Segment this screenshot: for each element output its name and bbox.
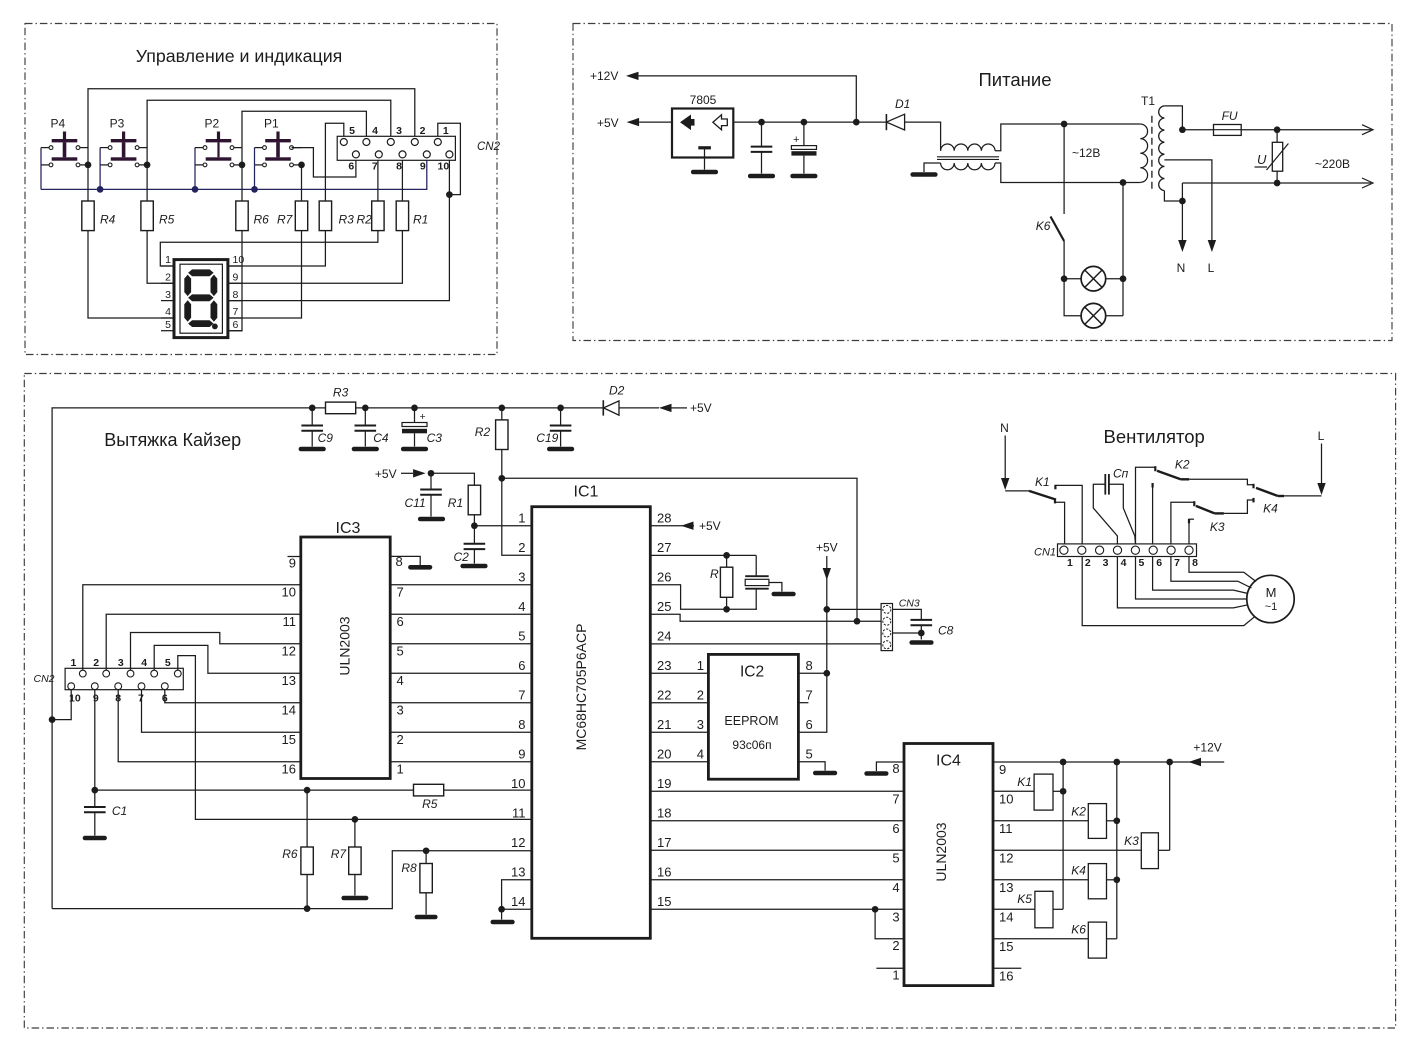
svg-text:~12В: ~12В [1072, 146, 1100, 160]
wire CN1 pin6 to motor [1153, 557, 1248, 594]
varistor U [1255, 130, 1289, 183]
wire K2/K4/K6 column [1116, 762, 1118, 939]
svg-text:R5: R5 [159, 213, 175, 227]
svg-text:+5V: +5V [690, 401, 712, 415]
wire CN1 pin7 to K3 [1171, 502, 1194, 544]
svg-text:ULN2003: ULN2003 [337, 616, 353, 675]
junction P3 right contacts [144, 162, 151, 169]
wire CN2 pin7 to R2 [377, 158, 379, 201]
wire +5V down to IC2 pin8 [826, 609, 828, 673]
switch K6 [1036, 124, 1064, 241]
wire P3 to CN2 pin 3 and R5 [147, 100, 391, 201]
display pin stubs left [161, 265, 174, 267]
svg-text:4: 4 [141, 657, 147, 669]
resistor R7 (control) [295, 201, 307, 231]
junction C input [758, 119, 765, 126]
switch K2 fan [1155, 458, 1190, 480]
svg-text:2: 2 [518, 540, 525, 555]
svg-text:15: 15 [999, 939, 1013, 954]
junction on bus at P2 [192, 186, 199, 193]
wire +5V to CN3 pin1 [827, 608, 881, 610]
svg-text:24: 24 [657, 629, 671, 644]
svg-text:R4: R4 [100, 213, 116, 227]
junction K1 [1060, 788, 1067, 795]
svg-text:4: 4 [697, 747, 704, 762]
svg-text:9: 9 [999, 762, 1006, 777]
connector CN3 [881, 598, 920, 651]
junction rail [557, 405, 564, 412]
junction CN3 pin2 [854, 618, 861, 625]
junction C11 [428, 470, 435, 477]
svg-text:K3: K3 [1124, 834, 1139, 848]
IC U IC3 ULN2003 [301, 520, 390, 779]
wire R5 to display pin 2 [147, 231, 174, 284]
svg-text:8: 8 [396, 554, 403, 569]
wire CN2 pin1 bracket [438, 123, 461, 194]
resistor R2 (control) [372, 201, 384, 231]
IC U IC2 EEPROM 93c06 [708, 654, 798, 779]
diode D1 [886, 97, 910, 130]
svg-text:CN2: CN2 [34, 673, 55, 685]
transformer T1 [1140, 94, 1164, 191]
resistor R2 (board) [475, 408, 508, 450]
svg-text:MC68HC705P6ACP: MC68HC705P6ACP [573, 624, 589, 751]
resistor R5 (control) [141, 201, 153, 231]
junction rail [411, 405, 418, 412]
svg-text:K2: K2 [1175, 458, 1190, 472]
svg-text:10: 10 [511, 776, 525, 791]
wire K2 to K4 [1189, 479, 1253, 485]
svg-text:15: 15 [657, 894, 671, 909]
relay coil K4 [993, 864, 1117, 899]
resistor R1 (board) [448, 485, 481, 515]
svg-text:C11: C11 [405, 496, 426, 510]
svg-text:3: 3 [397, 703, 404, 718]
junction on bus at P1 [251, 186, 258, 193]
svg-text:IC4: IC4 [936, 753, 961, 770]
wire R2 to display pin 1 [160, 231, 378, 266]
junction rail [362, 405, 369, 412]
svg-text:7: 7 [806, 688, 813, 703]
svg-text:EEPROM: EEPROM [724, 714, 778, 728]
bottom wire from left rail to pin12 row [52, 851, 532, 909]
junction P4 right contacts [85, 162, 92, 169]
svg-text:L: L [1318, 429, 1325, 443]
svg-text:5: 5 [397, 644, 404, 659]
wire T1 secondary mid tap to L [1164, 160, 1212, 240]
svg-text:12: 12 [511, 835, 525, 850]
svg-text:+12V: +12V [590, 69, 618, 83]
svg-text:4: 4 [372, 125, 378, 137]
wire R1 to display pin 9 [228, 231, 403, 284]
wire P2 to CN2 pin 4 and R6 [242, 111, 366, 201]
svg-text:2: 2 [892, 938, 899, 953]
capacitor C2 [454, 526, 486, 566]
svg-text:5: 5 [518, 629, 525, 644]
svg-text:R6: R6 [282, 847, 298, 861]
wire IC1 pin19 to IC4 pin7 [650, 790, 904, 792]
svg-text:6: 6 [348, 161, 354, 173]
svg-text:11: 11 [283, 614, 297, 629]
svg-text:+5V: +5V [597, 116, 619, 130]
svg-text:3: 3 [1103, 557, 1109, 569]
svg-text:22: 22 [657, 688, 671, 703]
wire CN1 pin7 to motor [1171, 557, 1252, 589]
relay coil K2 [993, 804, 1117, 839]
junction K4 [1113, 876, 1120, 883]
wire CN2b pin4 to IC3 pin13 [154, 645, 301, 673]
wire N arrow [1004, 436, 1006, 480]
wire CN2b pin6 to IC3 pin14 [165, 690, 301, 703]
svg-text:6: 6 [397, 614, 404, 629]
wire CN1 pin2 to motor [1082, 557, 1254, 626]
regulator 7805 [672, 93, 733, 158]
svg-text:C4: C4 [373, 431, 389, 445]
svg-text:K4: K4 [1071, 864, 1086, 878]
svg-text:4: 4 [518, 599, 525, 614]
junction left rail [49, 716, 56, 723]
svg-text:2: 2 [1085, 557, 1091, 569]
svg-text:7: 7 [372, 161, 378, 173]
junction R2/CN3 line [498, 475, 505, 482]
wire CN2b pin7 to IC3 pin15 [142, 690, 301, 733]
wire P1 left contacts to bus [254, 148, 256, 190]
svg-text:2: 2 [93, 657, 99, 669]
wire IC1 pin24 to CN3 pin4 [650, 643, 881, 645]
junction R6 bottom [304, 905, 311, 912]
svg-text:K6: K6 [1036, 219, 1051, 233]
junction pin1/pin10 [446, 191, 453, 198]
svg-text:K1: K1 [1017, 775, 1032, 789]
resistor R5 (board) [414, 784, 444, 796]
svg-text:3: 3 [892, 910, 899, 925]
wire IC3 pin3 to IC1 pin7 [390, 702, 532, 704]
svg-text:T1: T1 [1141, 94, 1155, 108]
common-mode choke [937, 144, 999, 170]
svg-text:K4: K4 [1263, 502, 1278, 516]
svg-text:7: 7 [518, 688, 525, 703]
svg-text:7: 7 [1174, 557, 1180, 569]
IC U IC4 ULN2003 [904, 744, 993, 986]
svg-text:1: 1 [892, 968, 899, 983]
svg-text:~1: ~1 [1265, 601, 1278, 613]
capacitor C1 [84, 787, 127, 838]
wire P4 left contacts to bus [40, 148, 42, 190]
svg-text:1: 1 [518, 511, 525, 526]
IC2 pin8 to +5V [798, 672, 826, 674]
IC3 pin8 ground [390, 554, 430, 569]
display pin stubs right [228, 265, 243, 267]
+5V top rail [52, 408, 326, 909]
svg-text:1: 1 [1067, 557, 1073, 569]
junction rail [309, 405, 316, 412]
junction +5V CN3 [823, 606, 830, 613]
svg-text:R8: R8 [401, 861, 417, 875]
resistor R3 (control) [319, 201, 331, 231]
svg-text:13: 13 [999, 880, 1013, 895]
svg-text:K2: K2 [1071, 805, 1086, 819]
junction P1 right contacts [298, 162, 305, 169]
wire IC1 pin20 to IC2 pin4 [650, 761, 708, 763]
IC4 pin1 stub [876, 967, 904, 969]
+5V feed CN3 [816, 541, 838, 610]
wire CN2b pin10 to left rail [52, 690, 71, 720]
wire CN2b pin1 to IC3 pin10 [83, 585, 301, 671]
junction P2 right contacts [239, 162, 246, 169]
relay coil K3 [993, 833, 1170, 869]
svg-text:FU: FU [1222, 109, 1238, 123]
capacitor (power filter) [750, 122, 773, 176]
svg-text:10: 10 [438, 161, 450, 173]
wire 220V bottom [1182, 182, 1371, 184]
svg-text:Сп: Сп [1113, 467, 1129, 481]
connector CN1 [1034, 544, 1197, 559]
wire IC1 pin18 to IC4 pin6 [650, 820, 904, 822]
wire R7 to display pin 7 [228, 231, 302, 318]
svg-text:6: 6 [1156, 557, 1162, 569]
ground of 7805 [704, 158, 706, 170]
svg-text:R2: R2 [475, 425, 491, 439]
wire K1 lower contact to CN1 pin1 [1054, 498, 1056, 503]
switch K4 fan [1256, 488, 1284, 516]
relay coil K6 [993, 922, 1117, 958]
wire CN2b pin2 to IC3 pin11 [106, 614, 301, 670]
svg-text:R6: R6 [254, 213, 270, 227]
wire IC1 pin26 to osc net [650, 585, 757, 610]
svg-text:9: 9 [289, 556, 296, 571]
wire 7805 to D1 (+12V rail) [733, 121, 886, 123]
wire CN1 pin5 to K2 [1136, 467, 1156, 544]
svg-text:N: N [1000, 421, 1009, 435]
svg-text:P4: P4 [51, 117, 66, 131]
wire IC1 pin22 to IC2 pin2 [650, 702, 708, 704]
wire IC3 pin5 to IC1 pin5 [390, 643, 532, 645]
svg-text:K3: K3 [1210, 520, 1225, 534]
common bus wire to CN2 pin 9 [41, 158, 427, 190]
svg-text:R7: R7 [331, 847, 348, 861]
svg-text:93с06п: 93с06п [732, 738, 771, 752]
svg-text:N: N [1177, 261, 1186, 275]
wire IC3 pin7 to IC1 pin3 [390, 584, 532, 586]
junction rail [498, 405, 505, 412]
wire lamps right column [1122, 183, 1124, 316]
svg-text:CN3: CN3 [899, 598, 920, 610]
svg-text:Управление и индикация: Управление и индикация [136, 46, 343, 66]
svg-text:K5: K5 [1017, 892, 1032, 906]
wire CN1 pin4 to motor [1117, 557, 1248, 608]
wire CN1 pin5 to motor [1136, 557, 1247, 600]
switch K3 fan [1194, 501, 1225, 534]
svg-text:R: R [710, 567, 719, 581]
resistor R3 (board) [326, 402, 356, 414]
svg-text:12: 12 [999, 850, 1013, 865]
svg-text:Питание: Питание [978, 69, 1051, 90]
svg-text:14: 14 [999, 909, 1013, 924]
svg-text:3: 3 [165, 289, 171, 301]
svg-text:11: 11 [999, 821, 1013, 836]
junction R8 top [423, 847, 430, 854]
lamp 2 [1081, 303, 1123, 328]
svg-text:16: 16 [999, 968, 1013, 983]
wire K3 to K4 lower [1224, 500, 1254, 513]
svg-text:5: 5 [892, 851, 899, 866]
wire K4 to L [1284, 495, 1322, 497]
junction +12V tap [853, 119, 860, 126]
diode D2 [603, 384, 624, 416]
svg-text:1: 1 [70, 657, 76, 669]
svg-text:CN2: CN2 [477, 141, 501, 153]
arrow L down [1208, 240, 1216, 252]
svg-text:1: 1 [397, 762, 404, 777]
IC2 pin5 ground [798, 747, 835, 774]
wire CN2b pin9 to R5 row [94, 690, 96, 790]
svg-text:27: 27 [657, 540, 671, 555]
svg-text:14: 14 [511, 894, 525, 909]
junction +12V rail [1166, 759, 1173, 766]
svg-text:10: 10 [233, 254, 245, 266]
wire IC4 pin3 to pin2 [875, 909, 904, 939]
connector CN2 (control) [337, 136, 455, 160]
svg-text:21: 21 [657, 717, 671, 732]
wire P1 top contact to CN2 pin 6 [292, 148, 356, 177]
+12V rail [993, 761, 1224, 763]
svg-text:R2: R2 [357, 213, 373, 227]
wire P2 left contacts to bus [194, 148, 196, 190]
wire P4 to CN2 pin 2 and R4 [88, 89, 415, 201]
svg-text:D1: D1 [895, 97, 910, 111]
resistor R8 (board) [401, 851, 435, 917]
wire IC3 pin4 to IC1 pin6 [390, 672, 532, 674]
wire T1 secondary bottom tap [1164, 191, 1182, 201]
svg-text:D2: D2 [609, 384, 625, 398]
svg-text:3: 3 [697, 717, 704, 732]
switch K1 fan [1005, 475, 1056, 500]
lamp 1 [1064, 266, 1123, 291]
svg-text:28: 28 [657, 511, 671, 526]
svg-text:20: 20 [657, 747, 671, 762]
svg-text:IC3: IC3 [336, 520, 361, 537]
svg-text:U: U [1257, 152, 1267, 167]
svg-text:8: 8 [518, 717, 525, 732]
junction on bus at P3 [97, 186, 104, 193]
wire IC1 pin15 to IC4 pin3 [650, 908, 904, 910]
capacitor C11 [405, 473, 443, 519]
wire D2 to +5V [619, 407, 659, 409]
svg-text:P3: P3 [110, 117, 125, 131]
power section dashed border [573, 24, 1392, 341]
control section dashed border [25, 24, 497, 355]
svg-text:3: 3 [518, 570, 525, 585]
wire IC1 pin16 to IC4 pin4 [650, 879, 904, 881]
svg-text:+5V: +5V [816, 541, 838, 555]
wire CN2b pin3 to IC3 pin12 [131, 633, 301, 671]
svg-text:9: 9 [233, 272, 239, 284]
junction +12V rail [1060, 759, 1067, 766]
polar capacitor C3 [402, 408, 442, 449]
svg-text:R1: R1 [413, 213, 428, 227]
svg-text:6: 6 [892, 821, 899, 836]
svg-text:12: 12 [282, 644, 296, 659]
svg-text:+5V: +5V [699, 519, 721, 533]
svg-text:9: 9 [518, 747, 525, 762]
svg-text:14: 14 [282, 703, 296, 718]
capacitor Сп [1093, 467, 1135, 544]
wire IC1 pin17 to IC4 pin5 [650, 849, 904, 851]
junction K2 [1113, 817, 1120, 824]
resistor R4 (control) [82, 201, 94, 231]
resistor R (osc) [650, 552, 756, 613]
svg-text:C2: C2 [454, 550, 470, 564]
wire IC3 pin6 to IC1 pin4 [390, 613, 532, 615]
connector CN2 (board) [65, 668, 183, 689]
pushbutton P4 [41, 117, 88, 167]
junction C polar [801, 119, 808, 126]
junction R7 top [352, 816, 359, 823]
svg-text:5: 5 [165, 657, 171, 669]
svg-text:9: 9 [93, 693, 99, 705]
svg-text:25: 25 [657, 599, 671, 614]
svg-text:8: 8 [396, 161, 402, 173]
svg-text:16: 16 [657, 865, 671, 880]
wire K1/K5 column [1062, 762, 1064, 909]
svg-text:1: 1 [443, 125, 449, 137]
svg-text:2: 2 [420, 125, 426, 137]
wire IC1 pin23 to IC2 pin1 [650, 672, 708, 674]
svg-text:K6: K6 [1071, 923, 1086, 937]
7-segment display [174, 260, 228, 338]
svg-text:4: 4 [1121, 557, 1127, 569]
svg-text:7: 7 [892, 792, 899, 807]
wire CN2b pin5 to IC1 pin11 [178, 656, 532, 820]
svg-text:3: 3 [396, 125, 402, 137]
capacitor C19 [536, 408, 572, 449]
pushbutton P2 [195, 117, 242, 167]
pushbutton P3 [100, 117, 147, 167]
wire K6 to lamps [1064, 241, 1081, 316]
svg-text:7805: 7805 [690, 93, 717, 107]
svg-text:5: 5 [806, 747, 813, 762]
K2 lower contact to CN1 pin6 [1151, 483, 1153, 488]
svg-text:8: 8 [806, 658, 813, 673]
svg-text:15: 15 [282, 732, 296, 747]
svg-text:18: 18 [657, 806, 671, 821]
wire R6 to display pin 6 [228, 231, 242, 331]
svg-text:Вентилятор: Вентилятор [1104, 426, 1205, 447]
capacitor C9 [301, 408, 333, 449]
svg-text:6: 6 [518, 658, 525, 673]
svg-text:P1: P1 [264, 117, 279, 131]
wire D1 to choke [905, 122, 941, 151]
resonator (osc) [745, 555, 793, 609]
resistor R1 (control) [396, 201, 408, 231]
wire R2 to IC1 pin2 [502, 450, 532, 556]
svg-text:19: 19 [657, 776, 671, 791]
svg-text:13: 13 [282, 673, 296, 688]
svg-text:IC2: IC2 [740, 664, 764, 681]
svg-text:4: 4 [892, 880, 899, 895]
svg-text:C8: C8 [938, 624, 954, 638]
wire K3 column [1169, 762, 1171, 850]
svg-text:IC1: IC1 [574, 484, 599, 501]
svg-text:5: 5 [165, 319, 171, 331]
svg-text:+: + [420, 411, 426, 423]
svg-text:11: 11 [512, 806, 526, 821]
wire +12V tap [639, 76, 857, 122]
IC4 pin16 stub [993, 967, 1021, 969]
svg-text:6: 6 [806, 717, 813, 732]
svg-text:+: + [793, 134, 799, 146]
svg-text:~220В: ~220В [1315, 157, 1350, 171]
